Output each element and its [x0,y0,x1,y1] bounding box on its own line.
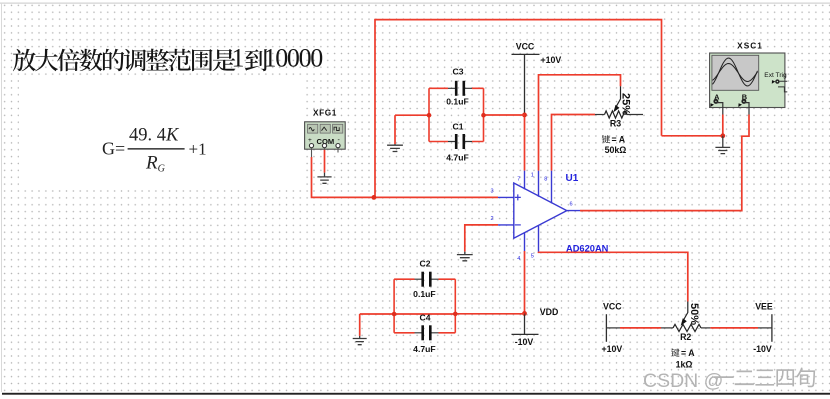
svg-text:25%: 25% [619,93,631,115]
wire U1 output to scope B [580,115,749,211]
wire U1 pin8 to R3 [552,115,596,171]
power symbol VEE -10V [753,302,773,354]
svg-text:G=: G= [102,139,125,159]
wire input net top run [375,20,662,198]
svg-text:3: 3 [491,189,494,195]
svg-text:5: 5 [531,254,534,260]
svg-text:VCC: VCC [603,302,622,312]
wire scope A down [722,115,724,136]
wire VCC to R2 [606,327,661,329]
svg-text:4.7uF: 4.7uF [446,153,468,163]
svg-text:4.7uF: 4.7uF [413,344,435,354]
wire XFG1 + output to U1 pin3 [312,157,499,197]
capacitor C3 0.1uF [429,67,484,107]
function generator XFG1 [305,108,346,158]
wire U1 pin5 to R2 wiper [539,252,688,302]
power symbol VCC +10V top [512,41,540,115]
svg-text:CSDN @: CSDN @ [643,370,723,392]
svg-text:R2: R2 [680,332,691,342]
ground at U1 pin2 [457,225,498,261]
svg-text:+10V: +10V [541,55,562,65]
svg-text:1: 1 [232,44,245,73]
svg-text:VEE: VEE [755,302,773,312]
svg-text:0.1uF: 0.1uF [413,289,435,299]
svg-text:1kΩ: 1kΩ [676,360,693,370]
op-amp U1 AD620AN [491,171,581,262]
svg-text:= A: = A [681,348,695,358]
svg-text:Ext Trig: Ext Trig [764,72,787,79]
lower bypass branch wires [360,279,525,333]
svg-text:= A: = A [612,134,626,144]
svg-text:XSC1: XSC1 [737,40,763,50]
bypass cap branch wires [427,88,525,141]
capacitor C2 0.1uF [394,259,455,300]
wire U1 pin4 to VDD [524,251,526,313]
capacitor C1 4.7uF [429,122,484,163]
svg-text:VDD: VDD [540,307,559,317]
oscilloscope XSC1 [710,40,788,114]
potentiometer R3 50k 25% [595,86,643,155]
ground below scope A [715,136,730,154]
svg-text:1: 1 [531,173,534,179]
wire scope A feed [662,135,723,137]
svg-text:R3: R3 [610,118,621,128]
svg-text:+1: +1 [189,140,207,159]
ground left of C3/C1 [387,115,429,151]
wire U1 pin1 to R3 wiper [539,75,621,171]
junction VCC bypass [522,113,527,118]
svg-text:RG: RG [145,153,165,175]
svg-text:50%: 50% [688,303,700,325]
junction input net [372,195,377,200]
svg-text:7: 7 [517,177,520,183]
wire VCC to U1 pin7 [524,115,526,171]
potentiometer R2 1k 50% [661,302,710,370]
svg-text:C3: C3 [453,67,464,77]
power symbol VCC +10V bottom [602,302,623,354]
svg-text:6: 6 [570,202,573,208]
top frame line [0,3,830,4]
svg-text:0.1uF: 0.1uF [446,97,468,107]
svg-text:XFG1: XFG1 [313,108,337,118]
svg-text:VCC: VCC [516,41,535,51]
svg-text:10000: 10000 [264,44,324,73]
capacitor C4 4.7uF [394,312,455,354]
svg-text:C1: C1 [453,122,464,132]
svg-text:-10V: -10V [515,337,534,347]
svg-text:U1: U1 [566,173,579,184]
svg-text:+: + [308,137,312,144]
junction scope A [720,133,725,138]
ground left of C2/C4 [353,314,367,345]
svg-text:2: 2 [491,216,494,222]
svg-text:8: 8 [544,177,547,183]
svg-text:-10V: -10V [753,344,772,354]
watermark CSDN [643,367,815,392]
svg-text:4: 4 [517,256,520,262]
ground under XFG1 COM [317,150,331,184]
svg-text:C2: C2 [420,259,431,269]
svg-text:50kΩ: 50kΩ [605,145,627,155]
formula G = 49.4K/RG + 1 [102,126,207,175]
left frame line [1,3,2,392]
svg-text:+10V: +10V [602,344,623,354]
power symbol VDD -10V [512,307,559,347]
svg-text:C4: C4 [420,312,431,322]
svg-text:49. 4K: 49. 4K [129,126,180,146]
bottom frame line [2,393,830,395]
title text 放大倍数的调整范围是1到10000 [13,44,323,73]
junction VDD bypass [522,311,527,316]
wire R2 to VEE [710,327,772,329]
